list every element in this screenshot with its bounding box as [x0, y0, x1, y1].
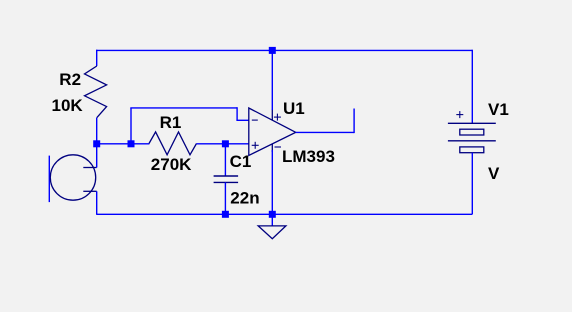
svg-text:R2: R2	[59, 70, 81, 89]
microphone body	[50, 155, 95, 200]
wire R2 bottom lead	[96, 118, 98, 144]
microphone terminal bottom	[83, 190, 96, 192]
battery V1 plate 2	[448, 140, 496, 142]
svg-text:10K: 10K	[52, 96, 84, 115]
node junction C1 bottom	[222, 211, 229, 218]
wire feedback down	[236, 107, 238, 120]
op-amp V- pin stub	[271, 144, 273, 152]
op-amp plus input mark	[252, 142, 259, 149]
node junction left	[93, 140, 100, 147]
wire mic top	[96, 144, 98, 168]
svg-text:V1: V1	[488, 100, 509, 119]
wire C1 top lead	[224, 144, 226, 176]
wire V- to ground	[271, 150, 273, 226]
battery V1 plate 1	[448, 122, 496, 124]
node junction R1 left	[128, 140, 135, 147]
wire R1 right lead	[197, 143, 226, 145]
resistor R1	[149, 132, 197, 155]
svg-text:22n: 22n	[230, 188, 259, 207]
wire R2 top lead	[96, 50, 98, 66]
wire input row left	[97, 143, 131, 145]
wire feedback top	[130, 107, 237, 109]
wire output stub up	[353, 109, 355, 134]
wire to minus input	[236, 119, 248, 121]
node junction C1 top	[222, 140, 229, 147]
wire top rail	[96, 49, 472, 51]
microphone terminal top	[83, 167, 96, 169]
op-amp V- minus mark	[275, 146, 282, 148]
wire battery bottom lead	[471, 153, 473, 215]
wire feedback up	[130, 108, 132, 144]
wire output horizontal	[296, 131, 354, 133]
capacitor C1	[214, 176, 239, 182]
op-amp V+ plus mark	[274, 114, 281, 121]
op-amp U1 triangle	[249, 108, 296, 155]
wire bottom rail	[96, 213, 472, 215]
ground symbol	[258, 226, 286, 239]
svg-text:C1: C1	[230, 152, 252, 171]
node junction top rail	[269, 47, 276, 54]
resistor R2	[85, 66, 107, 118]
wire mic bottom	[96, 191, 98, 214]
wire to plus input	[225, 143, 248, 145]
microphone diaphragm bar	[48, 156, 50, 203]
wire battery top lead	[471, 50, 473, 124]
svg-text:270K: 270K	[151, 155, 192, 174]
op-amp minus input mark	[252, 119, 258, 121]
svg-text:R1: R1	[160, 113, 182, 132]
node junction bottom rail	[269, 211, 276, 218]
op-amp V+ pin stub	[271, 110, 273, 121]
battery V1 cell 1	[460, 129, 484, 135]
svg-text:U1: U1	[283, 99, 305, 118]
wire V+ supply	[271, 50, 273, 110]
battery plus mark	[456, 111, 463, 118]
wire C1 bottom lead	[224, 182, 226, 214]
svg-text:LM393: LM393	[282, 147, 335, 166]
svg-text:V: V	[488, 164, 500, 183]
wire R1 left lead	[131, 143, 149, 145]
battery V1 cell 2	[460, 147, 484, 153]
